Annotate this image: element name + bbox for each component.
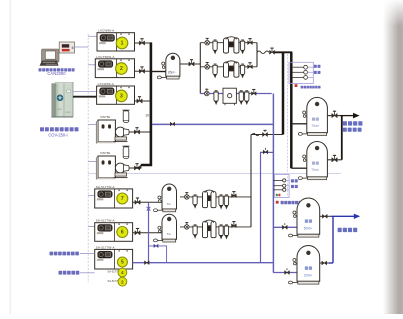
label 工艺C (305, 219, 312, 222)
purple main vertical (272, 94, 274, 273)
svg-text:SA-5177W-A: SA-5177W-A (96, 245, 116, 249)
regen line with flex (251, 134, 283, 136)
label 工艺用气 (338, 228, 358, 232)
bus stub pump2 (88, 161, 98, 163)
label 仪表t (314, 65, 321, 68)
svg-text:LXCW96-A: LXCW96-A (98, 82, 115, 86)
tank D outlet (320, 262, 329, 264)
pipe unit3 out (135, 100, 151, 102)
wire cabinet power thick (73, 96, 97, 98)
bus stub unit7 (88, 195, 95, 197)
dryer tank 7 (154, 184, 177, 212)
compressor unit 3 (97, 82, 135, 104)
process air arrow blue (331, 215, 355, 217)
filter chain 6 (180, 226, 251, 228)
bus stub unit1 (88, 35, 97, 37)
control cabinet (51, 83, 73, 118)
down vertical to chains (250, 135, 252, 227)
compressor unit 6 (95, 219, 133, 242)
svg-text:70m³: 70m³ (311, 168, 320, 172)
main manifold header (141, 42, 151, 165)
bus stub unit6 (88, 226, 95, 228)
label 发生产围 (343, 128, 362, 132)
label 流量控制系统 (281, 201, 302, 204)
pipe unit2 out (135, 70, 151, 72)
instrument air arrow (340, 115, 354, 117)
purple bypass (261, 152, 274, 262)
label 中央监控气体控制系统 (39, 68, 75, 71)
instrument tank A (298, 97, 327, 135)
leader line label1 (80, 253, 95, 255)
svg-text:3: 3 (120, 94, 123, 100)
wire controller to bus (75, 46, 89, 48)
pipe tank out (180, 63, 200, 65)
label 采样b (291, 185, 298, 188)
compressor unit 1 LXCW96-A (97, 29, 135, 51)
label 仪表A (312, 118, 319, 121)
purple line unit5 H2 (133, 262, 274, 264)
svg-text:50m³: 50m³ (304, 226, 313, 230)
pipe purple to tank D (273, 272, 297, 274)
faint horizontal condensate line (88, 173, 341, 175)
svg-text:CAN2000: CAN2000 (47, 71, 66, 76)
label 仪表B (312, 162, 319, 165)
label 仪表b (291, 179, 298, 182)
process riser blue (332, 216, 334, 263)
purple drop V1 (148, 202, 150, 262)
red marker flow (276, 201, 279, 204)
buffer tank 85m3 (157, 53, 180, 79)
pipe to tank B (291, 167, 307, 169)
leader line label2 (80, 272, 95, 274)
sampling taps upper (289, 62, 313, 83)
tank C outlet (320, 215, 331, 217)
instrument tank B (298, 142, 327, 180)
sampling taps lower (275, 175, 290, 198)
svg-text:VW760: VW760 (100, 151, 110, 155)
svg-text:LXCW96-A: LXCW96-A (98, 29, 115, 33)
svg-text:SA-5177W-A: SA-5177W-A (96, 185, 116, 189)
pipe purple to tank C (273, 226, 297, 228)
process tank D (289, 245, 320, 284)
svg-text:10: 10 (145, 114, 149, 118)
label 采样t (314, 71, 321, 74)
page left edge (10, 0, 12, 314)
pipe pump2 out (129, 167, 141, 169)
exit flex + valve (257, 51, 269, 54)
svg-text:2: 2 (120, 66, 123, 72)
compressor unit 7 SA-5177W-A (95, 185, 133, 208)
branch 3 purple filter train (200, 93, 271, 95)
tank B outlet riser (341, 116, 343, 160)
label 工艺D (305, 266, 312, 269)
process tank C (289, 198, 320, 237)
condensate blue line (152, 123, 273, 125)
svg-text:SA-5177W-A: SA-5177W-A (96, 219, 116, 223)
svg-text:20m³: 20m³ (304, 273, 313, 277)
filter chain 7 (180, 196, 251, 198)
svg-text:5: 5 (121, 260, 124, 266)
svg-text:7: 7 (121, 196, 124, 202)
green marker (276, 194, 278, 196)
label 采集预除水系统 (301, 86, 321, 89)
compressor unit 2 (95, 55, 134, 78)
signal bus dashed vertical (87, 34, 89, 283)
svg-text:85m³: 85m³ (168, 71, 175, 75)
bus stub unit2 (88, 64, 97, 66)
svg-text:70m³: 70m³ (311, 124, 320, 128)
monitor workstation (40, 49, 60, 66)
dryer tank 6 (154, 214, 177, 242)
compressor unit 5 (95, 245, 133, 269)
branch 2 filter train (200, 66, 257, 68)
page right shadow gradient (383, 0, 403, 314)
pipe unit6 to tank6 (133, 232, 162, 234)
label 冷却水系统 (59, 271, 80, 275)
wall controller (59, 42, 74, 53)
bus stub pump1 (88, 124, 98, 126)
tank A outlet (327, 115, 340, 117)
pipe pump1 out (129, 131, 150, 133)
branch header verticals (199, 43, 201, 94)
svg-text:COV-250-I: COV-250-I (48, 132, 67, 137)
pipe to tank A (291, 123, 307, 125)
red marker (295, 84, 298, 87)
wire cabinet purple (73, 91, 97, 93)
pipe manifold to tank (152, 71, 166, 73)
faint lavender vertical between headers (287, 54, 289, 196)
header vertical 1 (282, 52, 285, 134)
purple stub v1 branch (149, 246, 167, 263)
svg-text:1: 1 (121, 41, 124, 47)
label 仪表用气 (343, 121, 363, 125)
label 冷凝水整理系统 (50, 252, 79, 256)
pipe unit1 out (135, 42, 151, 44)
svg-text:6: 6 (121, 230, 124, 236)
branch 1 filter train (200, 42, 257, 44)
red marker small (278, 194, 280, 196)
pipe unit7 to tank7 (133, 201, 162, 203)
svg-text:VW760: VW760 (100, 115, 110, 119)
header vertical 2 (290, 52, 293, 168)
svg-text:LXCT56W-A: LXCT56W-A (96, 55, 115, 59)
label 高效节能控制系统 (40, 127, 78, 131)
